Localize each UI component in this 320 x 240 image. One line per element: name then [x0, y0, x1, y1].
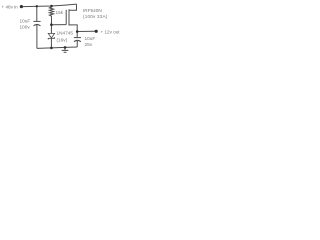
node cap1 junction: [36, 5, 38, 7]
zener D1 triangle: [48, 33, 54, 38]
ground bar 2: [64, 51, 67, 53]
svg-text:15k: 15k: [56, 10, 64, 15]
capacitor C2 curved plate: [74, 40, 81, 41]
wire top rail from input to drain corner: [23, 4, 77, 7]
svg-text:10uF: 10uF: [20, 18, 31, 23]
capacitor C2 top plate: [74, 37, 81, 39]
capacitor C1 curved plate: [34, 24, 41, 25]
wire resistor to gate node to zener: [50, 17, 52, 34]
wire cap2 to bus: [76, 41, 78, 47]
svg-text:100v: 100v: [20, 24, 31, 29]
node input terminal: [20, 5, 23, 8]
wire output to terminal: [77, 30, 95, 32]
node gate junction: [50, 23, 53, 26]
transistor Q1 gate bar: [65, 10, 67, 25]
ground stem: [64, 47, 66, 50]
wire zener to bus: [50, 38, 52, 48]
svg-text:25v: 25v: [85, 42, 93, 47]
ground bar 1: [62, 49, 69, 51]
wire gate lead: [51, 24, 66, 26]
svg-text:10uF: 10uF: [85, 36, 96, 41]
svg-text:IRF540N: IRF540N: [83, 8, 102, 13]
svg-text:+ 48v in: + 48v in: [2, 4, 19, 9]
wire source stub and vertical: [69, 25, 77, 37]
node ground junction: [64, 46, 67, 49]
node resistor top junction: [50, 5, 53, 8]
svg-text:+ 12v out: + 12v out: [101, 29, 121, 34]
resistor R1 zigzag: [49, 7, 53, 18]
wire bottom bus: [37, 47, 77, 48]
svg-text:1N4745: 1N4745: [57, 31, 74, 36]
capacitor C1 top plate: [33, 20, 40, 22]
node output terminal: [95, 30, 98, 33]
svg-text:(100v 33A): (100v 33A): [83, 14, 108, 19]
transistor Q1 channel bar: [68, 9, 70, 25]
node zener bus junction: [50, 47, 53, 50]
svg-text:(16v): (16v): [57, 38, 68, 43]
wire cap1 to bus corner: [36, 25, 38, 49]
wire cap1 branch from top rail: [36, 6, 38, 21]
node output junction: [76, 30, 79, 33]
wire drain vertical: [69, 4, 77, 10]
zener D1 cathode bar: [48, 37, 54, 39]
